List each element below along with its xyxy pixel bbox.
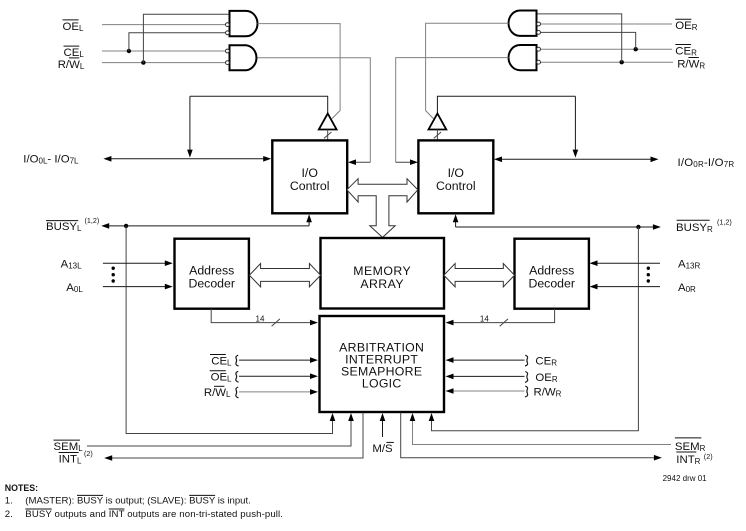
wire R/WL branch to gate G1: [143, 14, 229, 62]
crimp R/WR: [525, 386, 528, 397]
wire M/S into arbitration: [382, 420, 384, 438]
label R/WL: [58, 58, 85, 71]
pin bubble G2 input2: [226, 61, 230, 65]
wire R/WL into arbitration: [239, 391, 314, 393]
arrow R/WL: [310, 389, 318, 395]
svg-text:14: 14: [480, 315, 489, 324]
arrow into I/O control left right-edge: [348, 159, 356, 165]
arrow A13R into decoder: [590, 260, 598, 266]
pin bubble G3 input3: [537, 31, 541, 35]
wire G4 output down center: [396, 58, 509, 163]
wire G2 output down center: [258, 58, 371, 163]
label CEL arbitration: [210, 355, 232, 368]
label R/WL arbitration: [204, 386, 231, 399]
label SEMR: [675, 438, 706, 453]
buffer T2 right output-enable: [429, 114, 447, 130]
label OER: [675, 19, 697, 32]
and-gate G3 right read-enable: [509, 11, 537, 36]
block Memory Array: [321, 238, 445, 309]
arrow left bus out: [103, 156, 111, 162]
arrow BUSYR out: [653, 224, 661, 230]
wire BUSYL up into I/O control left: [308, 220, 310, 226]
label OEL arbitration: [210, 371, 232, 384]
svg-text:(2): (2): [84, 449, 93, 458]
arrow into I/O control right left-edge: [410, 159, 418, 165]
crimp OEL: [236, 371, 239, 382]
label CEL: [64, 46, 85, 59]
wire CEL: [102, 50, 226, 52]
label BUSYL (1,2): [46, 216, 99, 233]
wire right down to bus: [574, 96, 576, 151]
arrow BUSYL into arbitration bottom: [330, 413, 336, 421]
arrow OER: [446, 374, 454, 380]
arrow A0L into decoder: [165, 284, 173, 290]
wire A0R: [594, 286, 660, 288]
svg-text:MEMORY: MEMORY: [353, 264, 411, 278]
pin bubble G1 input3: [226, 31, 230, 35]
arrow A13L into decoder: [165, 260, 173, 266]
wire SEML into arbitration: [87, 420, 351, 447]
wire CEL branch to gate G1: [129, 33, 226, 51]
wire T1 to I/O control top: [327, 130, 329, 141]
and-gate G2 left write-enable: [230, 45, 257, 70]
svg-text:Address: Address: [529, 264, 574, 278]
svg-text:I/O: I/O: [301, 166, 317, 180]
crimp OER: [525, 372, 528, 383]
svg-text:(1,2): (1,2): [85, 216, 100, 225]
pin bubble G4 input1: [537, 47, 541, 51]
svg-text:(1,2): (1,2): [717, 217, 732, 226]
label OEL: [63, 20, 84, 33]
block I/O Control right: [418, 140, 493, 213]
svg-text:ARRAY: ARRAY: [360, 277, 404, 291]
pin bubble G3 input2: [537, 22, 541, 26]
wire A13R: [594, 262, 660, 264]
wire OEL: [102, 24, 226, 26]
hollow arrow decoder-memory right: [444, 264, 515, 287]
wire R/WR into arbitration: [450, 390, 525, 392]
label M/S: [372, 442, 393, 455]
svg-text:Decoder: Decoder: [528, 277, 574, 291]
svg-text:2942 drw 01: 2942 drw 01: [663, 474, 708, 483]
block Arbitration Interrupt Semaphore Logic: [320, 316, 445, 412]
node BUSYL junction: [124, 224, 128, 228]
arrow SEMR into arbitration bottom: [410, 413, 416, 421]
note 1: [5, 495, 251, 506]
wire A0L: [103, 286, 168, 288]
arrow SEML into arbitration bottom: [348, 413, 354, 421]
svg-text:BUSYL: BUSYL: [46, 221, 82, 233]
arrow A0R into decoder: [590, 284, 598, 290]
slash T2 output: [434, 132, 441, 138]
node R/WR junction: [620, 60, 624, 64]
label CER: [675, 45, 697, 58]
hollow 3-way arrow between I/O controls and memory: [347, 179, 418, 238]
wire INTL from arbitration: [107, 413, 363, 459]
arrow CER: [446, 357, 454, 363]
wire left down to bus: [189, 96, 191, 151]
pin bubble G1 input2: [226, 23, 230, 27]
wire G3 output to right buffer: [426, 23, 509, 118]
svg-text:Address: Address: [189, 264, 234, 278]
wire OEL into arbitration: [239, 375, 314, 377]
label INTL (2): [59, 449, 93, 465]
node CER junction: [634, 47, 638, 51]
wire SEMR into arbitration: [413, 420, 672, 445]
hollow arrow decoder-memory left: [249, 264, 320, 287]
wire left buffer enable feed: [190, 96, 328, 113]
arrow INTL out: [104, 455, 112, 461]
arrow M/S into arbitration bottom: [380, 413, 386, 421]
wire G2 into I/O control left: [352, 161, 370, 163]
pin bubble G4 input2: [537, 60, 541, 64]
svg-text:M/S: M/S: [372, 443, 393, 455]
pin bubble G2 input1: [226, 49, 230, 53]
wire right buffer enable feed: [437, 96, 575, 113]
and-gate G4 right write-enable: [509, 45, 537, 70]
svg-text:NOTES:: NOTES:: [5, 483, 38, 493]
svg-text:Control: Control: [436, 179, 476, 193]
wire R/WL: [102, 62, 226, 64]
wire T2 to I/O control top: [436, 130, 438, 141]
svg-text:Control: Control: [290, 179, 330, 193]
node CEL junction: [127, 49, 131, 53]
arrow BUSYL into I/O control left bottom: [306, 214, 312, 222]
crimp CER: [525, 355, 528, 366]
wire left I/O bus: [106, 158, 268, 160]
arrow down onto left bus: [187, 150, 193, 158]
wire A13L: [103, 262, 168, 264]
wire BUSYR down to arbitration: [432, 227, 639, 431]
svg-text:I/O: I/O: [448, 166, 464, 180]
node R/WL junction: [141, 60, 145, 64]
ellipsis dots left address: [112, 267, 115, 283]
svg-text:1.: 1.: [5, 496, 13, 507]
svg-text:2.: 2.: [5, 509, 13, 520]
arrow CEL: [310, 357, 318, 363]
wire BUSYL: [104, 225, 309, 227]
label BUSYR (1,2): [676, 217, 732, 234]
buffer T1 left output-enable: [319, 114, 337, 130]
arrow down onto right bus: [573, 150, 579, 158]
wire CER branch to gate G3: [541, 32, 636, 49]
wire G1 output to left buffer: [258, 24, 341, 119]
wire BUSYR up into I/O control right: [455, 220, 457, 228]
svg-text:(MASTER): BUSY is output; (SLA: (MASTER): BUSY is output; (SLAVE): BUSY …: [25, 496, 251, 507]
crimp R/WL: [236, 387, 239, 398]
crimp CEL: [236, 355, 239, 366]
wire G4 into I/O control right: [396, 161, 414, 163]
wire OER: [541, 23, 673, 25]
block Address Decoder left: [175, 239, 249, 309]
bus 14 right: [446, 309, 555, 327]
arrow right bus into I/O control: [494, 157, 502, 163]
bus 14 left: [211, 309, 318, 327]
arrow BUSYL out: [101, 223, 109, 229]
block Address Decoder right: [515, 239, 589, 309]
label SEML: [54, 440, 84, 453]
and-gate G1 left read-enable: [230, 11, 258, 36]
block I/O Control left: [272, 140, 347, 213]
svg-text:LOGIC: LOGIC: [362, 377, 402, 391]
svg-text:Decoder: Decoder: [188, 277, 234, 291]
wire CER into arbitration: [450, 359, 525, 361]
arrow left bus into I/O control: [263, 156, 271, 162]
wire OER into arbitration: [450, 375, 525, 377]
wire R/WR branch to gate G3: [537, 14, 622, 62]
svg-text:14: 14: [256, 315, 265, 324]
wire BUSYL down to arbitration: [126, 226, 332, 434]
wire CER: [541, 48, 673, 50]
arrow R/WR: [446, 388, 454, 394]
arrow right bus out: [651, 157, 659, 163]
arrow OEL: [310, 373, 318, 379]
label R/WR: [677, 58, 705, 71]
ellipsis dots right address: [647, 267, 650, 283]
node BUSYR junction: [636, 225, 640, 229]
wire INTR from arbitration: [401, 413, 659, 458]
svg-text:BUSY outputs and INT outputs a: BUSY outputs and INT outputs are non-tri…: [25, 509, 283, 520]
wire CEL into arbitration: [239, 359, 314, 361]
arrow BUSYR into I/O control right bottom: [453, 214, 459, 222]
arrow BUSYR into arbitration bottom: [429, 413, 435, 421]
wire BUSYR: [456, 226, 658, 228]
arrow INTR out: [654, 455, 662, 461]
note 2: [5, 509, 283, 520]
svg-text:(2): (2): [704, 452, 713, 461]
wire R/WR: [541, 61, 674, 63]
slash T1 output: [324, 132, 331, 138]
label INTR (2): [676, 452, 712, 466]
wire right I/O bus: [496, 158, 656, 160]
